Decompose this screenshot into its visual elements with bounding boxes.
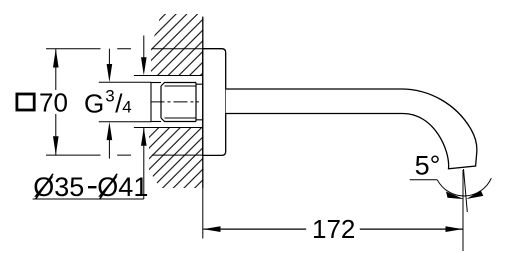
wall hole top edge [134, 75, 203, 77]
nipple OD bottom [151, 121, 161, 123]
dia35-41 top arrow [143, 36, 145, 59]
spout tube [226, 89, 477, 169]
dashed extension line top (sq70 upper) [46, 48, 203, 50]
G3/4 extension bottom [99, 121, 151, 123]
svg-text:5°: 5° [415, 150, 441, 180]
dia symbol slash extension 2 [100, 174, 118, 199]
centerline [151, 101, 200, 103]
nipple end cap [150, 83, 152, 122]
dia35-41 leader underline [33, 198, 144, 200]
svg-text:172: 172 [312, 214, 355, 244]
sq70 bottom arrowhead [53, 136, 59, 155]
G3/4 bottom arrow [108, 140, 110, 159]
172 dimension line [203, 228, 462, 230]
5 deg angle arc [437, 178, 491, 196]
svg-text:70: 70 [39, 87, 68, 117]
G3/4 extension top [99, 81, 151, 83]
wall hatching upper band [151, 14, 203, 76]
svg-text:Ø35: Ø35 [33, 172, 84, 202]
dashed extension line bottom (sq70 lower) [46, 154, 203, 156]
svg-text:G: G [84, 89, 104, 119]
square symbol [17, 94, 34, 110]
dia symbol slash extension 1 [36, 174, 54, 199]
G3/4 top arrow [108, 49, 110, 66]
svg-text:3: 3 [105, 86, 114, 105]
wall face line [202, 17, 204, 188]
thread G3/4 outer rect [161, 83, 196, 122]
wall hole bottom edge [134, 127, 203, 129]
nipple shank to wall [196, 84, 203, 120]
arc left arrowhead [446, 192, 464, 200]
dia35-41 bottom arrow [143, 128, 145, 200]
wall face extension line for 172 [202, 188, 204, 239]
spout outlet vertical extension line [462, 170, 464, 251]
svg-text:4: 4 [122, 97, 131, 116]
nipple OD top [151, 82, 161, 84]
sq70 dimension line [55, 49, 57, 155]
sq70 top arrowhead [53, 49, 59, 68]
spout axis 5 deg tilted line [464, 169, 468, 212]
5 deg leader line [410, 179, 438, 181]
arc right arrowhead [466, 190, 483, 199]
hyphen of dia label [88, 186, 97, 188]
flange [203, 49, 226, 156]
wall hatching lower band [149, 128, 203, 189]
172 left arrowhead [203, 226, 220, 232]
172 right arrowhead [446, 226, 463, 232]
svg-text:Ø41: Ø41 [97, 172, 148, 202]
thread root lines [165, 86, 197, 118]
